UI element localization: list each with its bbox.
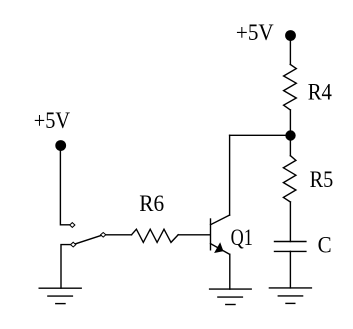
- wire: Q1 emitter down to ground: [229, 254, 231, 289]
- wire: switch pole down to ground: [61, 245, 71, 288]
- svg-text:+5V: +5V: [34, 108, 71, 133]
- wire: R5 down to capacitor C: [289, 202, 291, 242]
- ground (middle, Q1 emitter): [210, 289, 252, 304]
- node dot: R4/R5/collector junction: [285, 130, 295, 140]
- capacitor C bottom plate: [275, 250, 306, 252]
- wire: left +5V dot down to switch upper throw: [60, 146, 70, 225]
- wire: switch output to resistor R6: [106, 234, 132, 236]
- ground (left, below switch): [39, 288, 81, 303]
- resistor R5 (zigzag): [283, 156, 296, 202]
- resistor R6 (zigzag): [132, 229, 179, 242]
- svg-text:C: C: [318, 233, 332, 258]
- wire: top +5V dot down to R4: [289, 36, 291, 64]
- node dot: top +5V terminal: [285, 30, 296, 41]
- switch S1 blade (pole to moving contact): [73, 235, 103, 245]
- svg-text:+5V: +5V: [236, 20, 274, 45]
- transistor Q1 collector stroke: [211, 215, 230, 225]
- switch S1 output terminal (open diamond): [101, 233, 106, 238]
- wire: junction node down to R5: [289, 136, 291, 156]
- node dot: left +5V terminal: [55, 140, 66, 151]
- svg-text:R4: R4: [308, 79, 333, 104]
- wire: Q1 collector up to node A: [229, 135, 231, 215]
- svg-text:R5: R5: [310, 167, 334, 192]
- wire: node A horizontal (collector to R4/R5 junction): [230, 134, 291, 136]
- wire: R6 to Q1 base: [178, 234, 210, 236]
- switch S1 upper throw terminal (open diamond): [70, 223, 75, 228]
- wire: capacitor C down to ground: [289, 251, 291, 288]
- svg-text:Q1: Q1: [231, 225, 253, 250]
- transistor Q1 emitter arrowhead: [215, 243, 223, 253]
- resistor R4 (zigzag): [284, 64, 297, 110]
- transistor Q1 (NPN) base bar: [210, 219, 212, 250]
- ground (right, below capacitor): [269, 288, 311, 304]
- wire: R4 to junction node: [289, 110, 291, 136]
- capacitor C top plate: [275, 241, 306, 243]
- transistor Q1 emitter stroke: [211, 244, 230, 255]
- switch S1 pole terminal (open diamond): [71, 242, 76, 247]
- svg-text:R6: R6: [139, 191, 164, 216]
